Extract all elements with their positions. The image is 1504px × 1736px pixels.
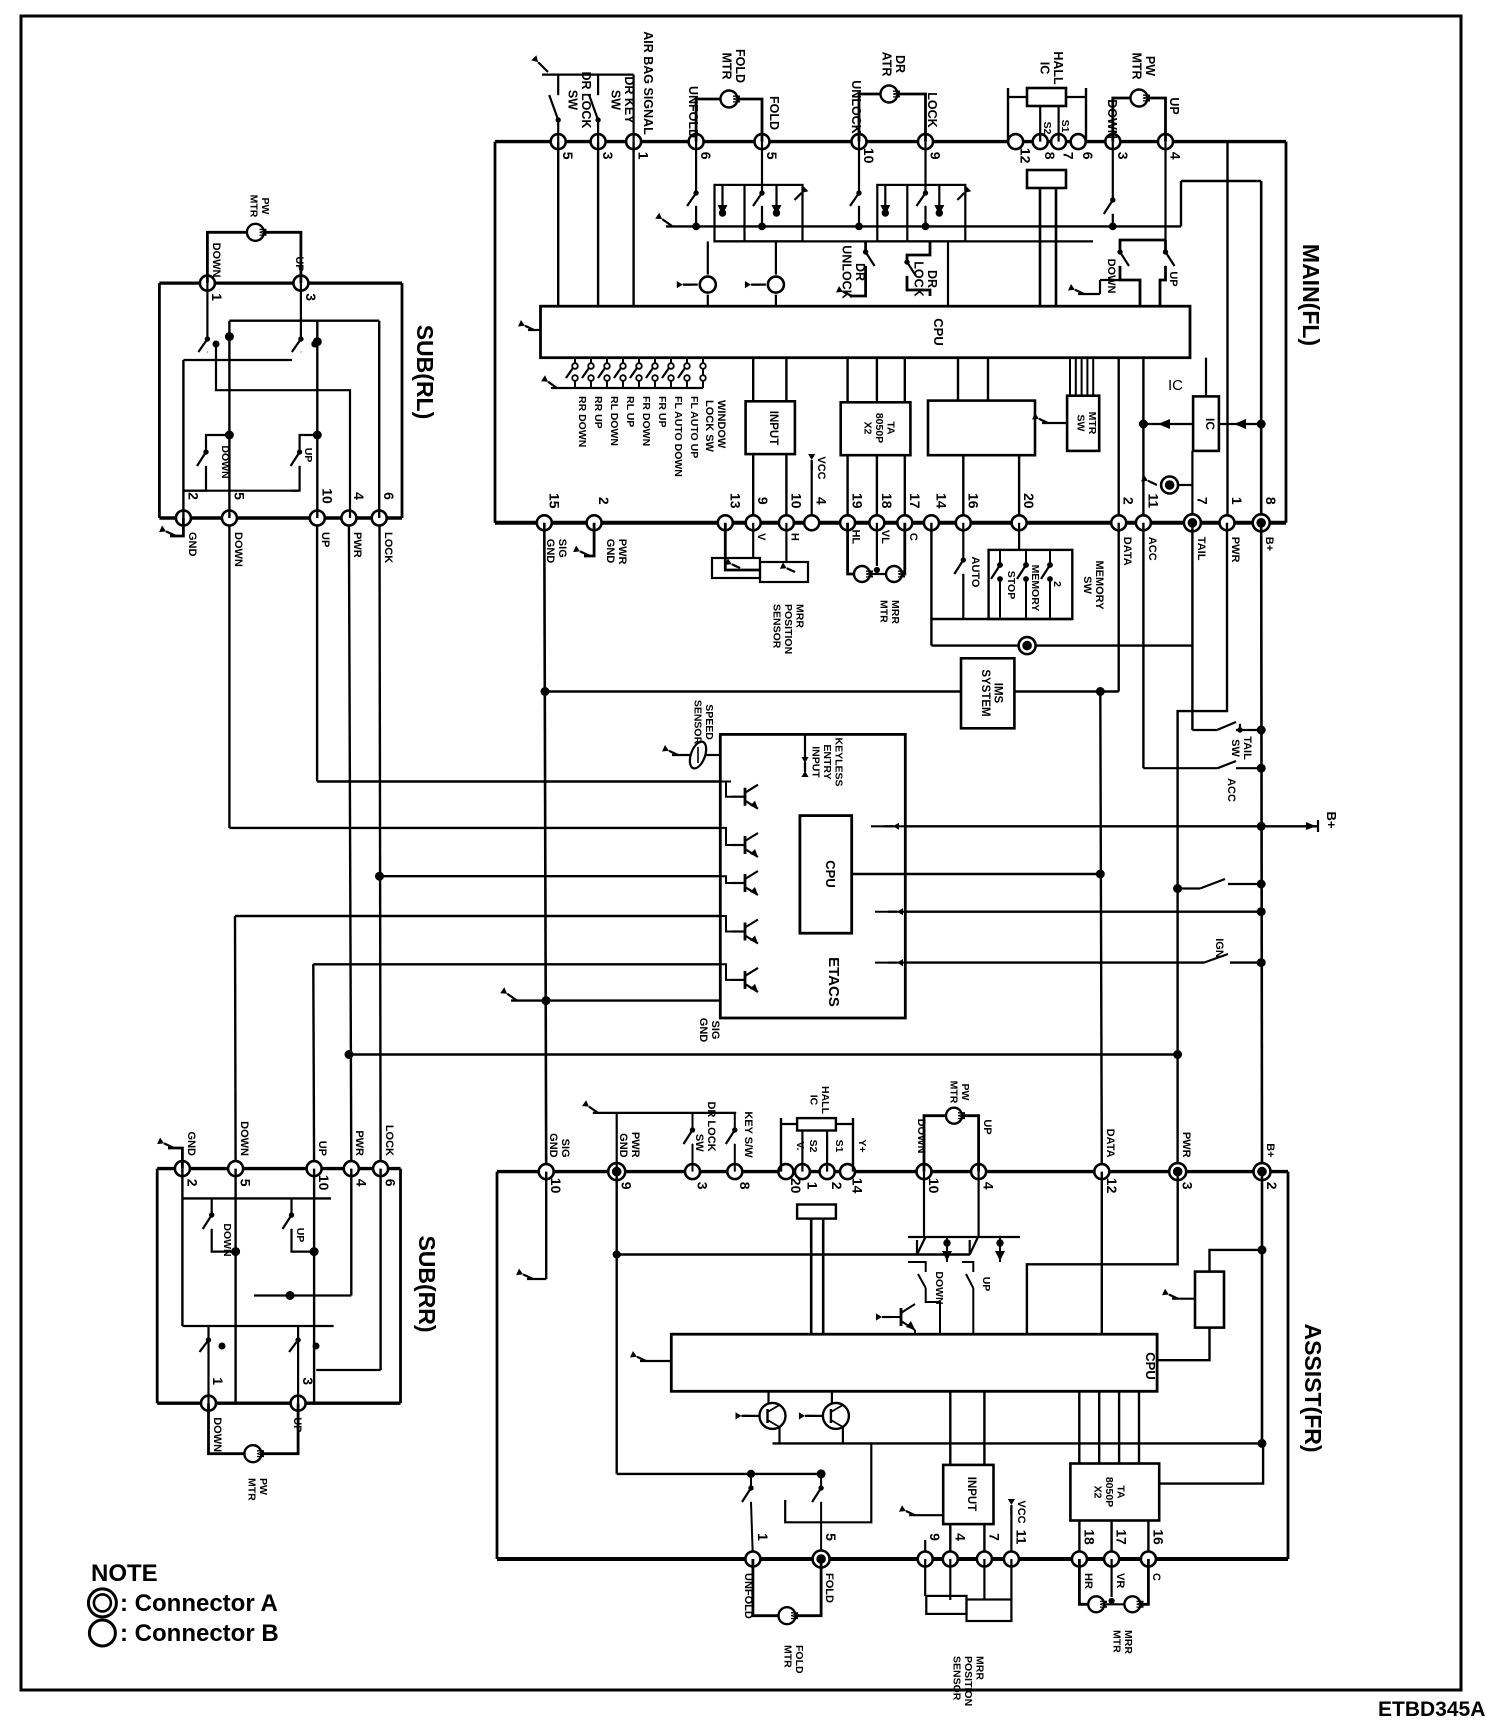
svg-text:VCC: VCC (815, 456, 827, 479)
svg-text:DOWN: DOWN (238, 1121, 250, 1156)
svg-text:RR DOWN: RR DOWN (576, 396, 588, 447)
svg-text:UNFOLD: UNFOLD (686, 86, 700, 138)
svg-text:5: 5 (560, 152, 576, 160)
svg-text:RL DOWN: RL DOWN (608, 396, 620, 446)
svg-text:10: 10 (861, 148, 877, 164)
svg-text:DR: DR (925, 270, 939, 288)
svg-text:C: C (1150, 1573, 1162, 1581)
svg-text:UP: UP (980, 1277, 992, 1292)
svg-text:9: 9 (927, 1533, 943, 1541)
svg-text:DR LOCK: DR LOCK (705, 1101, 717, 1151)
svg-text:11: 11 (1145, 493, 1161, 508)
svg-text:SW: SW (608, 90, 622, 110)
svg-text:10: 10 (316, 1175, 332, 1191)
svg-text:LOCK: LOCK (382, 532, 394, 563)
svg-text:S2: S2 (1041, 122, 1053, 135)
svg-text:20: 20 (1021, 493, 1037, 509)
svg-text:HR: HR (1082, 1573, 1094, 1589)
svg-text:6: 6 (381, 492, 397, 500)
svg-text:PW: PW (1143, 56, 1157, 76)
svg-text:MTR: MTR (1110, 1630, 1122, 1653)
svg-text:STOP: STOP (1005, 571, 1017, 599)
svg-text:HALL: HALL (1051, 51, 1065, 85)
svg-text:LOCK: LOCK (383, 1125, 395, 1156)
svg-text:GND: GND (544, 539, 556, 564)
svg-text:INPUT: INPUT (965, 1477, 977, 1512)
svg-text:SW: SW (565, 90, 579, 110)
svg-text:S2: S2 (807, 1140, 819, 1153)
svg-text:5: 5 (823, 1533, 839, 1541)
svg-text:B+: B+ (1263, 537, 1275, 551)
svg-text:2: 2 (596, 497, 612, 505)
svg-text:DR: DR (893, 55, 907, 73)
svg-text:GND: GND (186, 532, 198, 557)
svg-text:S1: S1 (833, 1140, 845, 1153)
svg-text:B+: B+ (1264, 1143, 1276, 1157)
svg-text:AIR BAG SIGNAL: AIR BAG SIGNAL (641, 31, 655, 135)
svg-text:SW: SW (1074, 415, 1086, 432)
svg-text:PWR: PWR (353, 1130, 365, 1156)
svg-text:5: 5 (764, 152, 780, 160)
svg-text:9: 9 (755, 497, 771, 505)
svg-text:ASSIST(FR): ASSIST(FR) (1300, 1323, 1326, 1452)
svg-text:INPUT: INPUT (810, 746, 822, 778)
svg-text:SYSTEM: SYSTEM (979, 669, 991, 716)
svg-text:DATA: DATA (1104, 1129, 1116, 1158)
svg-text:X2: X2 (862, 422, 874, 435)
svg-text:18: 18 (1081, 1529, 1097, 1545)
svg-text:UP: UP (302, 448, 314, 463)
svg-text:PWR: PWR (629, 1132, 641, 1158)
svg-text:ACC: ACC (1146, 537, 1158, 561)
svg-text:GND: GND (604, 539, 616, 564)
svg-text:MEMORY: MEMORY (1029, 565, 1041, 612)
svg-text:12: 12 (1018, 148, 1034, 164)
svg-text:SENSOR: SENSOR (951, 1656, 963, 1701)
svg-text:ENTRY: ENTRY (821, 744, 833, 779)
svg-text:9: 9 (928, 152, 944, 160)
svg-text:6: 6 (1080, 152, 1096, 160)
svg-text:2: 2 (829, 1182, 845, 1190)
svg-text:TA: TA (1115, 1485, 1127, 1499)
svg-text:S1: S1 (1059, 120, 1071, 133)
svg-text:LOCK SW: LOCK SW (703, 400, 715, 453)
svg-text:H: H (788, 533, 800, 541)
svg-text:4: 4 (351, 492, 367, 500)
svg-text:DOWN: DOWN (1105, 99, 1119, 139)
svg-text:GND: GND (697, 1018, 709, 1043)
svg-text:DOWN: DOWN (915, 1119, 927, 1154)
svg-text:UP: UP (1167, 97, 1181, 114)
svg-text:SIG: SIG (709, 1021, 721, 1040)
svg-text:3: 3 (600, 152, 616, 160)
svg-text:LOCK: LOCK (925, 92, 939, 127)
svg-text:1: 1 (209, 293, 225, 301)
svg-text:10: 10 (319, 488, 335, 504)
svg-text:5: 5 (238, 1179, 254, 1187)
svg-text:GND: GND (617, 1133, 629, 1158)
svg-text:18: 18 (879, 493, 895, 509)
svg-text:PW: PW (959, 1084, 971, 1101)
svg-text:Y+: Y+ (856, 1139, 868, 1152)
svg-text:DOWN: DOWN (211, 1417, 223, 1452)
svg-text:4: 4 (952, 1533, 968, 1541)
svg-text:15: 15 (546, 493, 562, 509)
svg-text:CPU: CPU (1143, 1352, 1158, 1379)
svg-text:IC: IC (807, 1095, 819, 1106)
svg-text:19: 19 (850, 493, 866, 509)
svg-text:ACC: ACC (1225, 778, 1237, 802)
svg-text:IMS: IMS (991, 683, 1003, 704)
svg-text:MRR: MRR (794, 604, 806, 628)
svg-text:UP: UP (981, 1119, 993, 1134)
svg-text:SW: SW (693, 1134, 705, 1152)
svg-text:PW: PW (257, 1478, 269, 1495)
svg-text:HL: HL (850, 529, 862, 544)
svg-text:9: 9 (619, 1182, 635, 1190)
svg-text:PW: PW (259, 198, 271, 215)
svg-text:1: 1 (636, 152, 652, 160)
svg-text:13: 13 (727, 493, 743, 509)
svg-text:ETACS: ETACS (825, 957, 842, 1007)
svg-text:KEY S/W: KEY S/W (742, 1111, 754, 1158)
svg-text:TAIL: TAIL (1241, 736, 1253, 760)
svg-text:MTR: MTR (719, 52, 733, 79)
svg-text:PWR: PWR (351, 532, 363, 558)
svg-text:2: 2 (1051, 581, 1063, 587)
svg-text:16: 16 (1150, 1529, 1166, 1545)
svg-text:RL UP: RL UP (624, 396, 636, 427)
svg-text:IGN: IGN (1213, 938, 1225, 958)
svg-text:UP: UP (293, 256, 305, 271)
svg-text:POSITION: POSITION (782, 604, 794, 654)
svg-text:10: 10 (788, 493, 804, 509)
svg-text:4: 4 (353, 1179, 369, 1187)
svg-text:POSITION: POSITION (962, 1656, 974, 1706)
svg-text:MEMORY: MEMORY (1093, 560, 1105, 610)
svg-text:X2: X2 (1092, 1486, 1104, 1499)
svg-text:SENSOR: SENSOR (691, 700, 703, 745)
svg-text:3: 3 (695, 1182, 711, 1190)
svg-text:DR LOCK: DR LOCK (579, 72, 593, 129)
svg-text:FL AUTO UP: FL AUTO UP (688, 396, 700, 458)
svg-text:17: 17 (907, 493, 923, 509)
svg-text:DOWN: DOWN (219, 445, 231, 478)
svg-text:3: 3 (303, 293, 319, 301)
svg-text:MTR: MTR (1086, 412, 1098, 435)
svg-text:4: 4 (981, 1182, 997, 1190)
svg-text:FL AUTO DOWN: FL AUTO DOWN (672, 396, 684, 477)
svg-text:MTR: MTR (245, 1478, 257, 1501)
svg-text:FR UP: FR UP (656, 396, 668, 428)
svg-text:PWR: PWR (616, 539, 628, 565)
svg-text:: Connector A: : Connector A (120, 1590, 278, 1617)
svg-text:DOWN: DOWN (1105, 259, 1117, 294)
svg-text:HALL: HALL (819, 1086, 831, 1115)
svg-text:6: 6 (698, 152, 714, 160)
svg-text:UP: UP (1167, 271, 1179, 286)
svg-text:1: 1 (210, 1377, 226, 1385)
svg-text:10: 10 (548, 1178, 564, 1194)
svg-text:VCC: VCC (1015, 1500, 1027, 1523)
svg-text:SIG: SIG (559, 1139, 571, 1158)
svg-text:UNLOCK: UNLOCK (839, 245, 853, 298)
svg-text:MTR: MTR (1129, 52, 1143, 79)
svg-text:SW: SW (1081, 576, 1093, 594)
svg-text:DR: DR (853, 263, 867, 281)
svg-text:UP: UP (316, 1141, 328, 1156)
svg-text:8: 8 (1263, 497, 1279, 505)
svg-text:5: 5 (231, 492, 247, 500)
svg-text:14: 14 (933, 493, 949, 509)
svg-text:KEYLESS: KEYLESS (833, 737, 845, 786)
svg-text:DOWN: DOWN (210, 243, 222, 278)
svg-text:SIG: SIG (556, 539, 568, 558)
svg-text:2: 2 (185, 492, 201, 500)
svg-text:CPU: CPU (931, 318, 946, 345)
svg-text:TAIL: TAIL (1195, 537, 1207, 561)
svg-text:DOWN: DOWN (232, 532, 244, 567)
svg-text:GND: GND (185, 1132, 197, 1157)
svg-text:IC: IC (1203, 418, 1217, 430)
svg-text:SUB(RR): SUB(RR) (414, 1235, 440, 1332)
svg-text:10: 10 (926, 1178, 942, 1194)
svg-text:SENSOR: SENSOR (771, 604, 783, 649)
svg-text:TA: TA (885, 421, 897, 435)
svg-text:FR DOWN: FR DOWN (640, 396, 652, 446)
svg-text:3: 3 (1115, 152, 1131, 160)
svg-text:C: C (907, 533, 919, 541)
svg-text:UP: UP (294, 1228, 306, 1243)
svg-text:GND: GND (547, 1133, 559, 1158)
svg-text:MAIN(FL): MAIN(FL) (1298, 244, 1324, 346)
svg-text:2: 2 (184, 1179, 200, 1187)
svg-text:8: 8 (737, 1182, 753, 1190)
svg-text:V.: V. (794, 1142, 806, 1151)
svg-text:: Connector B: : Connector B (120, 1620, 279, 1647)
svg-text:UNLOCK: UNLOCK (849, 80, 863, 133)
svg-text:IC: IC (1037, 62, 1051, 75)
svg-text:DATA: DATA (1121, 537, 1133, 566)
svg-text:DOWN: DOWN (933, 1271, 945, 1304)
svg-text:RR UP: RR UP (592, 396, 604, 429)
svg-text:SUB(RL): SUB(RL) (412, 325, 438, 420)
svg-text:SW: SW (1229, 739, 1241, 757)
svg-text:VL: VL (879, 530, 891, 544)
svg-text:MRR: MRR (974, 1656, 986, 1680)
svg-text:8050P: 8050P (1103, 1477, 1115, 1507)
svg-text:7: 7 (986, 1533, 1002, 1541)
svg-text:2: 2 (1264, 1182, 1280, 1190)
svg-text:7: 7 (1061, 152, 1077, 160)
svg-text:17: 17 (1114, 1529, 1130, 1545)
svg-text:8: 8 (1042, 152, 1058, 160)
svg-text:12: 12 (1104, 1178, 1120, 1194)
svg-text:1: 1 (1229, 497, 1245, 505)
svg-text:NOTE: NOTE (91, 1560, 158, 1587)
svg-text:MRR: MRR (1122, 1630, 1134, 1654)
svg-text:MRR: MRR (889, 600, 901, 624)
svg-text:14: 14 (850, 1178, 866, 1194)
svg-text:1: 1 (804, 1182, 820, 1190)
svg-text:MTR: MTR (947, 1081, 959, 1104)
svg-text:3: 3 (1180, 1182, 1196, 1190)
svg-text:1: 1 (755, 1533, 771, 1541)
svg-text:2: 2 (1121, 497, 1137, 505)
svg-text:ETBD345A: ETBD345A (1378, 1698, 1485, 1721)
svg-text:6: 6 (383, 1179, 399, 1187)
svg-text:FOLD: FOLD (733, 49, 747, 83)
svg-text:ATR: ATR (879, 52, 893, 77)
svg-text:4: 4 (1168, 152, 1184, 160)
svg-text:PWR: PWR (1180, 1132, 1192, 1158)
svg-text:CPU: CPU (823, 860, 838, 887)
svg-text:LOCK: LOCK (911, 261, 925, 296)
svg-text:8050P: 8050P (873, 413, 885, 443)
svg-text:IC: IC (1168, 377, 1183, 394)
svg-text:7: 7 (1194, 497, 1210, 505)
svg-text:FOLD: FOLD (793, 1645, 805, 1674)
svg-text:WINDOW: WINDOW (715, 400, 727, 449)
svg-text:VR: VR (1114, 1573, 1126, 1588)
svg-text:PWR: PWR (1229, 537, 1241, 563)
svg-text:MTR: MTR (247, 195, 259, 218)
svg-text:B+: B+ (1324, 812, 1339, 829)
svg-text:DR KEY: DR KEY (622, 76, 636, 124)
svg-text:UP: UP (319, 532, 331, 547)
svg-text:V: V (755, 533, 767, 541)
svg-text:SPEED: SPEED (703, 704, 715, 740)
svg-text:MTR: MTR (877, 600, 889, 623)
svg-text:AUTO: AUTO (969, 557, 981, 588)
svg-text:INPUT: INPUT (767, 411, 779, 446)
svg-text:FOLD: FOLD (823, 1573, 835, 1603)
svg-text:4: 4 (814, 497, 830, 505)
svg-text:MTR: MTR (781, 1645, 793, 1668)
svg-text:16: 16 (965, 493, 981, 509)
svg-text:FOLD: FOLD (767, 96, 781, 130)
svg-text:11: 11 (1013, 1530, 1029, 1545)
